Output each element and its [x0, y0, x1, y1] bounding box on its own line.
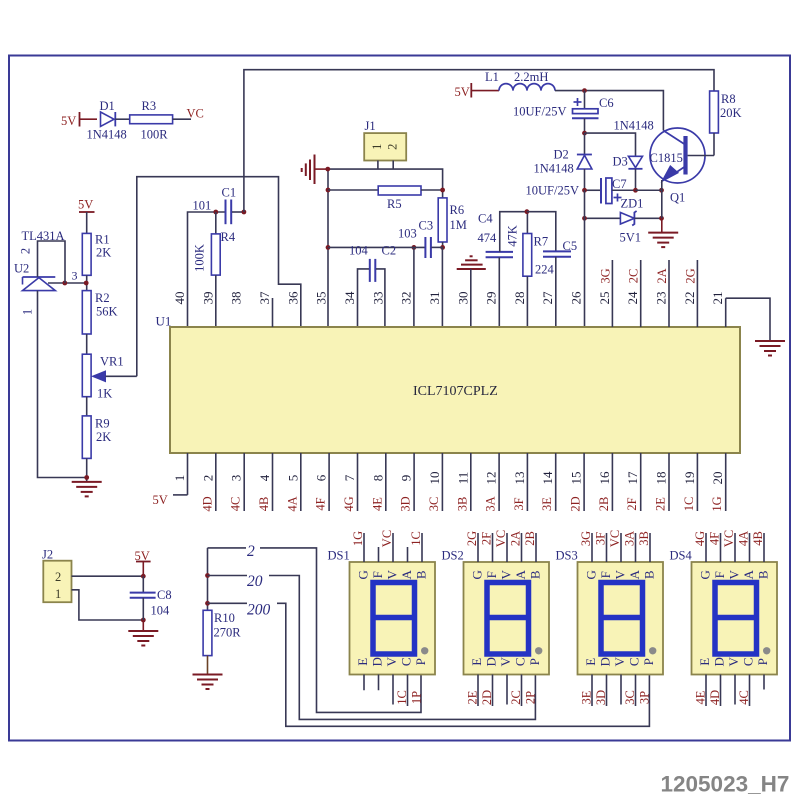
pin 33 — [370, 292, 385, 305]
svg-text:1G: 1G — [351, 531, 365, 546]
svg-text:4A: 4A — [285, 496, 299, 511]
svg-text:E: E — [355, 658, 370, 666]
svg-text:4E: 4E — [694, 690, 708, 704]
wire pin 35 — [327, 169, 329, 327]
svg-text:U2: U2 — [14, 262, 29, 276]
svg-text:5V: 5V — [153, 493, 168, 507]
svg-text:C6: C6 — [599, 96, 614, 110]
wire pin 38 to top rail, R8 — [244, 70, 714, 212]
svg-text:C7: C7 — [612, 177, 627, 191]
svg-text:1N4148: 1N4148 — [614, 119, 654, 133]
svg-text:3D: 3D — [399, 496, 413, 511]
svg-text:R8: R8 — [721, 92, 736, 106]
svg-text:8: 8 — [370, 475, 385, 482]
pin 4 — [257, 453, 273, 511]
svg-text:1: 1 — [370, 144, 384, 150]
svg-text:D2: D2 — [554, 148, 569, 162]
wire emitter — [661, 180, 663, 218]
power 5V (R1 top) — [78, 198, 95, 234]
svg-text:3G: 3G — [579, 531, 593, 546]
pin 2 — [200, 453, 216, 512]
svg-text:7: 7 — [342, 474, 357, 481]
svg-text:B: B — [756, 570, 771, 579]
svg-text:R1: R1 — [95, 233, 110, 247]
svg-text:14: 14 — [540, 471, 555, 485]
svg-text:3F: 3F — [512, 497, 526, 510]
pin 10 — [427, 453, 443, 511]
svg-text:DS3: DS3 — [556, 549, 578, 563]
pin 14 — [540, 453, 556, 511]
svg-text:C: C — [513, 657, 528, 666]
svg-text:2C: 2C — [627, 269, 641, 284]
svg-text:R6: R6 — [450, 203, 465, 217]
pin 34 — [342, 291, 357, 305]
svg-text:13: 13 — [512, 472, 527, 485]
svg-text:36: 36 — [285, 291, 300, 305]
svg-text:224: 224 — [535, 263, 555, 277]
svg-text:V: V — [498, 656, 513, 666]
svg-text:27: 27 — [540, 291, 555, 305]
pin 24 — [625, 260, 641, 327]
svg-text:2K: 2K — [96, 246, 111, 260]
svg-text:4C: 4C — [229, 497, 243, 512]
svg-text:A: A — [513, 569, 528, 579]
pin 1 — [153, 453, 188, 507]
pin 36 — [285, 291, 300, 305]
svg-text:4F: 4F — [708, 532, 722, 545]
connector J2 — [42, 548, 72, 603]
svg-text:100R: 100R — [141, 128, 169, 142]
svg-text:20: 20 — [247, 573, 263, 590]
svg-text:4G: 4G — [342, 496, 356, 511]
svg-text:5: 5 — [285, 475, 300, 482]
ground (Q1) — [648, 218, 678, 247]
wire pin 1 — [21, 291, 87, 478]
svg-text:4D: 4D — [708, 690, 722, 705]
svg-text:V: V — [385, 569, 400, 579]
svg-text:24: 24 — [625, 291, 640, 305]
junction — [582, 216, 664, 221]
pin 26 — [569, 291, 584, 305]
junction — [582, 188, 664, 193]
svg-text:3B: 3B — [455, 497, 469, 512]
svg-text:V: V — [612, 656, 627, 666]
svg-text:2: 2 — [19, 248, 33, 254]
svg-text:ZD1: ZD1 — [621, 197, 644, 211]
svg-text:1: 1 — [55, 587, 61, 601]
pin 9 — [399, 453, 415, 512]
net label 20 — [247, 570, 269, 590]
svg-text:C5: C5 — [563, 239, 578, 253]
svg-text:C: C — [399, 657, 414, 666]
resistor R4 100K — [193, 212, 236, 327]
svg-text:38: 38 — [229, 292, 244, 305]
resistor R7 47K — [506, 212, 549, 327]
wire J2 pin 1 — [72, 590, 144, 620]
svg-text:P: P — [413, 658, 428, 665]
svg-text:U1: U1 — [156, 314, 172, 329]
diode D2 1N4148 — [534, 133, 592, 190]
svg-text:F: F — [598, 571, 613, 578]
svg-text:19: 19 — [682, 472, 697, 485]
svg-text:ICL7107CPLZ: ICL7107CPLZ — [413, 384, 498, 399]
junction — [205, 573, 210, 606]
svg-text:270R: 270R — [214, 626, 242, 640]
svg-text:2.2mH: 2.2mH — [514, 70, 548, 84]
svg-text:21: 21 — [710, 292, 725, 305]
svg-text:26: 26 — [569, 291, 584, 305]
svg-text:1P: 1P — [410, 691, 424, 704]
power 5V (D1 branch) — [61, 112, 97, 128]
svg-text:C: C — [741, 657, 756, 666]
svg-text:D3: D3 — [613, 155, 628, 169]
pin 40 — [172, 292, 187, 305]
pin 32 — [399, 292, 414, 305]
svg-text:4A: 4A — [737, 531, 751, 546]
svg-text:E: E — [469, 658, 484, 666]
svg-text:C: C — [627, 657, 642, 666]
wire to D3 — [585, 133, 636, 156]
capacitor C2 104 — [349, 244, 396, 328]
svg-text:20K: 20K — [720, 106, 742, 120]
svg-text:5V: 5V — [455, 85, 470, 99]
svg-text:20: 20 — [710, 472, 725, 485]
svg-text:12: 12 — [484, 472, 499, 485]
svg-text:D1: D1 — [100, 99, 115, 113]
svg-text:3C: 3C — [427, 497, 441, 512]
svg-text:32: 32 — [399, 292, 414, 305]
svg-text:2E: 2E — [466, 690, 480, 704]
wire J2 pin 2 — [72, 575, 144, 577]
wire pin 26 — [584, 190, 586, 327]
svg-text:200: 200 — [247, 602, 271, 619]
pin 30 — [455, 292, 470, 305]
svg-text:1M: 1M — [450, 218, 467, 232]
pin 38 — [229, 292, 244, 305]
svg-text:DS4: DS4 — [670, 549, 693, 563]
svg-text:A: A — [627, 569, 642, 579]
watermark 1205023_H7 — [661, 772, 790, 797]
connector J1 — [364, 119, 406, 169]
svg-text:A: A — [399, 569, 414, 579]
pin 8 — [370, 453, 386, 511]
svg-text:2F: 2F — [625, 497, 639, 510]
svg-text:VC: VC — [187, 107, 204, 121]
svg-text:2: 2 — [247, 543, 255, 560]
svg-text:VC: VC — [494, 530, 508, 547]
svg-text:B: B — [414, 570, 429, 579]
svg-text:G: G — [698, 570, 713, 579]
wire range tap 2 — [208, 548, 422, 713]
svg-text:3E: 3E — [540, 497, 554, 511]
svg-text:R5: R5 — [387, 197, 402, 211]
power 5V (J2) — [135, 549, 151, 576]
svg-text:37: 37 — [257, 291, 272, 305]
svg-text:B: B — [642, 570, 657, 579]
svg-text:B: B — [528, 570, 543, 579]
svg-text:16: 16 — [597, 471, 612, 485]
wire — [86, 458, 88, 481]
svg-text:D: D — [598, 657, 613, 666]
svg-text:1C: 1C — [682, 497, 696, 512]
svg-text:2E: 2E — [654, 497, 668, 511]
wire pin 21 to ground — [726, 298, 770, 341]
svg-text:3B: 3B — [637, 531, 651, 546]
svg-text:2D: 2D — [480, 690, 494, 705]
svg-text:104: 104 — [349, 244, 369, 258]
svg-text:DS2: DS2 — [442, 549, 464, 563]
svg-text:R3: R3 — [142, 99, 157, 113]
wire pin 2 loop — [19, 241, 66, 283]
pin 37 — [257, 291, 273, 327]
svg-text:34: 34 — [342, 291, 357, 305]
svg-text:A: A — [741, 569, 756, 579]
svg-text:P: P — [755, 658, 770, 665]
svg-text:31: 31 — [427, 292, 442, 305]
svg-text:5V: 5V — [61, 114, 76, 128]
junction — [582, 88, 587, 93]
svg-text:4C: 4C — [737, 690, 751, 705]
svg-text:4B: 4B — [257, 497, 271, 512]
pin 23 — [654, 260, 670, 327]
wire — [232, 211, 244, 213]
svg-text:22: 22 — [682, 292, 697, 305]
svg-text:18: 18 — [654, 472, 669, 485]
display DS4 — [670, 530, 778, 706]
pin 39 — [200, 292, 215, 305]
svg-text:3: 3 — [72, 269, 78, 283]
pin 21 — [710, 292, 726, 328]
svg-text:G: G — [584, 570, 599, 579]
svg-text:23: 23 — [654, 292, 669, 305]
capacitor C3 103 — [398, 219, 443, 259]
svg-text:47K: 47K — [506, 225, 520, 247]
svg-text:33: 33 — [370, 292, 385, 305]
svg-text:3: 3 — [229, 475, 244, 482]
svg-text:1C: 1C — [395, 690, 409, 705]
pin 25 — [597, 260, 613, 327]
pin 3 — [229, 453, 245, 511]
svg-text:3P: 3P — [638, 691, 652, 704]
svg-text:D: D — [370, 657, 385, 666]
svg-text:10: 10 — [427, 472, 442, 485]
svg-text:100K: 100K — [193, 244, 207, 272]
wire to node VC — [173, 107, 204, 121]
pin 20 — [710, 453, 726, 512]
diode D1 1N4148 — [87, 99, 127, 142]
junction — [84, 475, 89, 480]
svg-text:2B: 2B — [597, 497, 611, 512]
svg-text:F: F — [712, 571, 727, 578]
wire wiper to pin 36 — [137, 177, 301, 377]
ground (C8) — [128, 620, 158, 646]
diode D3 1N4148 — [613, 119, 654, 191]
IC U1 ICL7107CPLZ — [156, 314, 741, 454]
wire node 3 — [48, 269, 87, 291]
svg-text:R10: R10 — [214, 611, 235, 625]
pin 11 — [455, 453, 471, 511]
svg-text:VC: VC — [608, 530, 622, 547]
svg-text:J1: J1 — [365, 119, 376, 133]
svg-text:10UF/25V: 10UF/25V — [526, 184, 579, 198]
svg-text:2A: 2A — [655, 268, 669, 283]
wire J1 rail — [328, 169, 443, 190]
svg-text:1: 1 — [21, 309, 35, 315]
svg-text:C3: C3 — [419, 219, 434, 233]
pin 7 — [342, 453, 358, 512]
capacitor C1 101 — [193, 186, 237, 225]
svg-text:D: D — [712, 657, 727, 666]
svg-text:17: 17 — [625, 471, 640, 485]
svg-text:101: 101 — [193, 199, 212, 213]
svg-text:V: V — [384, 656, 399, 666]
svg-text:5V1: 5V1 — [620, 231, 642, 245]
junction — [141, 574, 146, 623]
ground (pin 30, inverted) — [457, 256, 486, 327]
transistor Q1 C1815 — [650, 128, 715, 205]
svg-text:2: 2 — [55, 570, 61, 584]
potentiometer VR1 1K — [82, 354, 137, 400]
svg-text:5V: 5V — [78, 198, 93, 212]
svg-text:103: 103 — [398, 227, 417, 241]
svg-text:4G: 4G — [693, 531, 707, 546]
resistor R6 1M — [438, 190, 467, 247]
pin 16 — [597, 453, 613, 511]
junction — [412, 188, 446, 250]
capacitor C6 10UF/25V — [513, 91, 614, 134]
wire range tap 20 — [208, 576, 536, 720]
pin 35 — [314, 292, 329, 305]
svg-text:10UF/25V: 10UF/25V — [513, 105, 566, 119]
junction — [213, 210, 246, 215]
svg-text:C4: C4 — [478, 212, 493, 226]
wire — [86, 334, 88, 354]
resistor R8 20K — [710, 91, 742, 156]
svg-text:G: G — [356, 570, 371, 579]
svg-text:56K: 56K — [96, 305, 118, 319]
svg-text:1N4148: 1N4148 — [87, 128, 127, 142]
net label 200 — [247, 598, 277, 619]
svg-text:C2: C2 — [382, 244, 397, 258]
svg-text:C1815: C1815 — [650, 151, 683, 165]
wire range tap 200 — [208, 603, 650, 726]
capacitor C7 10UF/25V — [526, 177, 636, 204]
svg-text:R2: R2 — [95, 291, 110, 305]
svg-text:2P: 2P — [524, 691, 538, 704]
wire — [555, 91, 663, 131]
power 5V (L1) — [455, 83, 500, 99]
svg-text:R9: R9 — [95, 417, 110, 431]
svg-text:V: V — [726, 656, 741, 666]
junction — [62, 281, 88, 286]
pin 19 — [682, 453, 698, 511]
svg-text:DS1: DS1 — [328, 549, 350, 563]
capacitor C4 474 — [478, 212, 527, 328]
inductor L1 2.2mH — [485, 70, 555, 91]
pin 6 — [314, 453, 330, 511]
wire pin 32 — [413, 247, 415, 327]
pin 17 — [625, 453, 641, 511]
svg-text:3A: 3A — [623, 531, 637, 546]
svg-text:3D: 3D — [594, 690, 608, 705]
display DS2 — [442, 530, 550, 706]
svg-text:1: 1 — [172, 475, 187, 482]
resistor R3 100R — [130, 99, 173, 142]
resistor R5 — [328, 186, 443, 211]
wire pin 40 to C1 — [188, 212, 225, 327]
svg-text:4: 4 — [257, 474, 272, 481]
pin 22 — [682, 260, 698, 327]
ground (pin 21) — [755, 341, 785, 356]
TL431 U2 — [14, 229, 65, 291]
svg-text:3F: 3F — [594, 532, 608, 545]
svg-text:P: P — [527, 658, 542, 665]
svg-text:4E: 4E — [370, 497, 384, 511]
pin 13 — [512, 453, 528, 511]
pin 28 — [512, 292, 527, 305]
pin 18 — [654, 453, 670, 511]
pin 29 — [484, 292, 499, 305]
svg-text:Q1: Q1 — [670, 191, 685, 205]
svg-text:R7: R7 — [534, 235, 549, 249]
svg-text:2A: 2A — [509, 531, 523, 546]
svg-text:C1: C1 — [222, 186, 237, 200]
svg-text:VC: VC — [380, 530, 394, 547]
svg-text:VR1: VR1 — [100, 355, 124, 369]
svg-text:E: E — [697, 658, 712, 666]
svg-text:P: P — [641, 658, 656, 665]
pin 31 — [427, 292, 442, 305]
svg-text:25: 25 — [597, 292, 612, 305]
pin 27 — [540, 291, 555, 305]
svg-text:2: 2 — [385, 144, 399, 150]
svg-text:R4: R4 — [221, 230, 236, 244]
svg-text:2G: 2G — [465, 531, 479, 546]
svg-text:39: 39 — [200, 292, 215, 305]
resistor R1 2K — [82, 233, 111, 276]
svg-text:474: 474 — [478, 231, 498, 245]
svg-text:28: 28 — [512, 292, 527, 305]
svg-text:9: 9 — [399, 475, 414, 482]
pin 12 — [484, 453, 500, 512]
svg-text:1N4148: 1N4148 — [534, 162, 574, 176]
svg-text:104: 104 — [151, 604, 171, 618]
svg-text:1G: 1G — [710, 496, 724, 511]
pin 15 — [569, 453, 585, 512]
svg-text:2G: 2G — [683, 268, 697, 283]
svg-text:3G: 3G — [598, 268, 612, 283]
wire pin 31 — [441, 247, 443, 327]
svg-text:2B: 2B — [523, 531, 537, 546]
svg-text:15: 15 — [569, 472, 584, 485]
svg-text:V: V — [613, 569, 628, 579]
svg-text:35: 35 — [314, 292, 329, 305]
display DS3 — [556, 530, 664, 706]
svg-text:1K: 1K — [97, 387, 112, 401]
svg-text:VC: VC — [722, 530, 736, 547]
svg-text:1205023_H7: 1205023_H7 — [661, 772, 790, 797]
capacitor C8 104 — [130, 576, 172, 620]
zener ZD1 5V1 — [585, 197, 662, 245]
wire analog common — [328, 246, 425, 248]
svg-text:40: 40 — [172, 292, 187, 305]
svg-text:4D: 4D — [200, 496, 214, 511]
ground (J1) — [302, 155, 328, 185]
svg-text:F: F — [484, 571, 499, 578]
svg-text:4F: 4F — [314, 497, 328, 510]
svg-text:J2: J2 — [42, 548, 53, 562]
svg-text:C8: C8 — [157, 588, 172, 602]
